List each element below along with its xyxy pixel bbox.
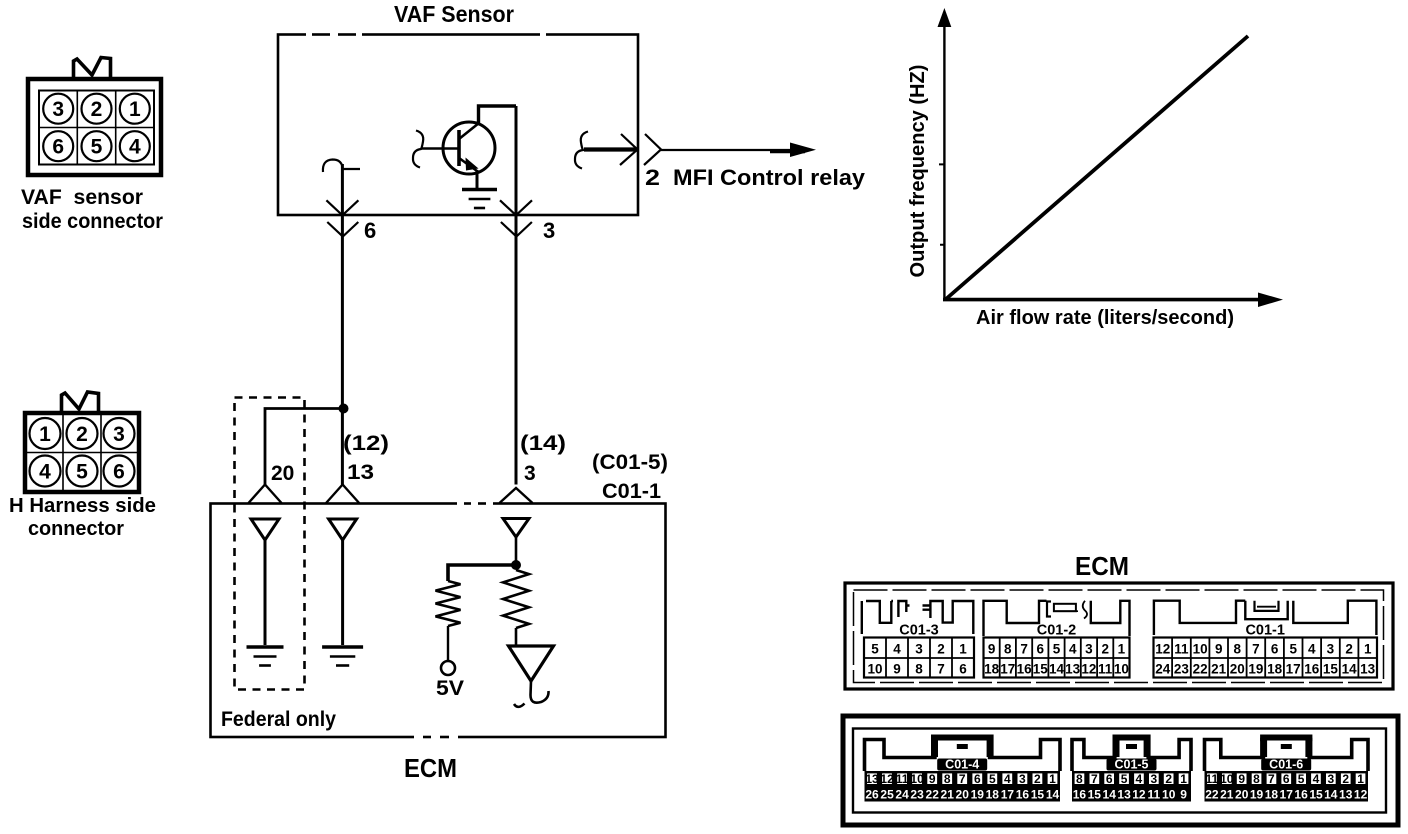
svg-text:4: 4 <box>1004 772 1011 786</box>
pin 9 (C01-4) <box>929 772 936 786</box>
svg-text:2: 2 <box>1101 642 1109 657</box>
pin 6 (C01-4) <box>974 772 981 786</box>
pin 1 (H harness side connector) <box>30 418 61 449</box>
svg-text:3: 3 <box>1019 772 1026 786</box>
pin 8 (C01-2) <box>1004 642 1012 657</box>
ground (transistor emitter) <box>462 170 497 208</box>
svg-text:4: 4 <box>893 642 901 657</box>
junction node (5V divider) <box>511 560 521 570</box>
svg-text:12: 12 <box>1354 788 1368 802</box>
ground (pin 13) <box>322 647 363 666</box>
svg-text:VAF sensor: VAF sensor <box>21 186 143 209</box>
svg-text:10: 10 <box>867 662 882 677</box>
pin 15 (C01-1) <box>1323 662 1339 677</box>
wire: branch to pin 20 <box>265 409 344 485</box>
svg-text:3: 3 <box>1150 772 1157 786</box>
svg-text:9: 9 <box>1215 642 1223 657</box>
dashed box: Federal only <box>235 398 305 690</box>
pin 10 (C01-6) <box>1220 772 1234 786</box>
pin 17 (C01-6) <box>1280 788 1294 802</box>
connector C01-2 pin grid <box>984 638 1130 678</box>
svg-text:26: 26 <box>865 788 879 802</box>
svg-text:5V: 5V <box>436 677 464 700</box>
svg-text:13: 13 <box>865 772 879 786</box>
pin 23 (C01-4) <box>910 788 924 802</box>
svg-text:16: 16 <box>1304 662 1320 677</box>
pin 15 (C01-6) <box>1309 788 1323 802</box>
svg-text:2: 2 <box>1034 772 1041 786</box>
pin 6 (C01-1) <box>1271 642 1279 657</box>
svg-text:4: 4 <box>1308 642 1316 657</box>
svg-text:19: 19 <box>1248 662 1263 677</box>
pin 7 (C01-6) <box>1268 772 1275 786</box>
connector curl: pin 6 wire top <box>323 160 360 173</box>
svg-text:17: 17 <box>1280 788 1294 802</box>
svg-text:13: 13 <box>347 461 374 484</box>
svg-text:8: 8 <box>944 772 951 786</box>
ECM connector housing (harness view, bottom) <box>843 716 1398 825</box>
connector C01-4 pin grid (row 2) <box>865 786 1061 802</box>
svg-text:6: 6 <box>1106 772 1113 786</box>
svg-text:14: 14 <box>1046 788 1060 802</box>
svg-text:12: 12 <box>1081 662 1096 677</box>
box: ECM <box>211 504 666 738</box>
connector C01-6 pin grid (row 1) <box>1205 771 1369 786</box>
svg-text:5: 5 <box>871 642 879 657</box>
svg-text:19: 19 <box>971 788 985 802</box>
svg-text:5: 5 <box>1121 772 1128 786</box>
connector C01-6 pin grid (row 2) <box>1205 786 1369 802</box>
pin 4 (VAF sensor side connector) <box>120 131 150 161</box>
svg-text:11: 11 <box>1098 662 1113 677</box>
pin 1 (C01-6) <box>1357 772 1364 786</box>
pin 13 (C01-2) <box>1065 662 1081 677</box>
svg-text:9: 9 <box>929 772 936 786</box>
svg-text:14: 14 <box>1103 788 1117 802</box>
connector curl: relay output <box>575 132 588 169</box>
label: MFI Control relay <box>673 165 866 190</box>
box: VAF Sensor <box>278 35 638 216</box>
svg-text:15: 15 <box>1323 662 1339 677</box>
wire: pin 6 vertical <box>341 164 344 485</box>
label: pin 2 <box>645 165 660 190</box>
svg-text:15: 15 <box>1031 788 1045 802</box>
pin 5 (C01-6) <box>1298 772 1305 786</box>
pin 7 (C01-5) <box>1091 772 1098 786</box>
svg-text:4: 4 <box>1313 772 1320 786</box>
pin 9 (C01-6) <box>1238 772 1245 786</box>
pin 16 (C01-4) <box>1016 788 1030 802</box>
label: C01-1 <box>602 480 661 503</box>
label: pin 20 <box>271 462 294 485</box>
svg-text:3: 3 <box>1327 642 1335 657</box>
svg-text:(C01-5): (C01-5) <box>592 451 668 474</box>
svg-text:Output frequency (HZ): Output frequency (HZ) <box>907 65 929 278</box>
pin fork 3 (ECM) <box>500 488 533 503</box>
svg-text:4: 4 <box>1136 772 1143 786</box>
pin 2 (H harness side connector) <box>67 418 98 449</box>
svg-text:22: 22 <box>1205 788 1219 802</box>
pin 5 (C01-4) <box>989 772 996 786</box>
svg-text:connector: connector <box>28 518 124 540</box>
svg-text:3: 3 <box>1327 772 1334 786</box>
pin 4 (H harness side connector) <box>30 456 61 487</box>
svg-text:1: 1 <box>1364 642 1372 657</box>
pin 18 (C01-2) <box>984 662 1000 677</box>
svg-text:15: 15 <box>1309 788 1323 802</box>
svg-text:20: 20 <box>1235 788 1249 802</box>
pin 22 (C01-6) <box>1205 788 1219 802</box>
pin 2 (C01-3) <box>937 642 945 657</box>
svg-text:8: 8 <box>1234 642 1242 657</box>
svg-text:10: 10 <box>910 772 924 786</box>
svg-text:(14): (14) <box>520 432 566 455</box>
svg-text:5: 5 <box>1053 642 1061 657</box>
pin 9 (C01-5) <box>1180 788 1187 802</box>
svg-text:2: 2 <box>645 165 660 190</box>
svg-text:19: 19 <box>1250 788 1264 802</box>
svg-text:7: 7 <box>937 662 945 677</box>
svg-text:C01-1: C01-1 <box>602 480 661 503</box>
label: pin 3 (ECM) <box>524 462 536 485</box>
svg-text:C01-2: C01-2 <box>1037 623 1077 639</box>
pin 24 (C01-1) <box>1155 662 1171 677</box>
connector: H harness side connector <box>25 392 139 492</box>
svg-text:1: 1 <box>1118 642 1126 657</box>
svg-text:4: 4 <box>1069 642 1077 657</box>
svg-text:1: 1 <box>39 423 51 446</box>
svg-text:10: 10 <box>1114 662 1129 677</box>
label: ECM (connector view) <box>1075 551 1129 581</box>
svg-text:22: 22 <box>926 788 940 802</box>
svg-text:11: 11 <box>1147 788 1160 802</box>
graph x-axis <box>943 293 1283 308</box>
label: pin 3 <box>543 218 555 243</box>
connector C01-1 pin grid <box>1154 638 1378 678</box>
pin 22 (C01-4) <box>926 788 940 802</box>
wire: output to box edge (thick) <box>584 147 638 151</box>
wire: pin 3 to node <box>515 537 518 565</box>
svg-text:2: 2 <box>76 423 88 446</box>
pin 18 (C01-1) <box>1267 662 1283 677</box>
connector curl: comparator output <box>514 681 549 707</box>
svg-text:10: 10 <box>1193 642 1208 657</box>
pin 21 (C01-4) <box>941 788 955 802</box>
pin 1 (VAF sensor side connector) <box>120 94 150 124</box>
pin 8 (C01-4) <box>944 772 951 786</box>
label: (C01-5) <box>592 451 668 474</box>
label: Output frequency (HZ) <box>907 65 929 278</box>
svg-text:9: 9 <box>988 642 996 657</box>
svg-text:7: 7 <box>1020 642 1028 657</box>
svg-text:7: 7 <box>1252 642 1260 657</box>
wire: arrow to MFI control relay <box>661 143 816 158</box>
svg-text:6: 6 <box>974 772 981 786</box>
svg-text:5: 5 <box>989 772 996 786</box>
label: C01-1 <box>1245 623 1285 639</box>
pin 4 (C01-5) <box>1136 772 1143 786</box>
svg-text:21: 21 <box>1211 662 1227 677</box>
pin 26 (C01-4) <box>865 788 879 802</box>
pin 1 (C01-4) <box>1049 772 1056 786</box>
pin 14 (C01-4) <box>1046 788 1060 802</box>
svg-text:14: 14 <box>1049 662 1065 677</box>
label: Federal only <box>221 708 336 731</box>
pin 6 (C01-6) <box>1283 772 1290 786</box>
svg-text:11: 11 <box>1206 772 1219 786</box>
pin 18 (C01-6) <box>1265 788 1279 802</box>
svg-text:8: 8 <box>1253 772 1260 786</box>
svg-text:C01-4: C01-4 <box>945 758 979 772</box>
svg-text:6: 6 <box>1037 642 1045 657</box>
svg-text:11: 11 <box>896 772 909 786</box>
wire: node to pull-up resistor <box>448 565 516 581</box>
svg-text:1: 1 <box>1049 772 1056 786</box>
svg-text:(12): (12) <box>343 432 389 455</box>
pin 14 (C01-1) <box>1342 662 1358 677</box>
connector: VAF sensor side connector <box>28 58 161 176</box>
connector C01-5 pin grid (row 2) <box>1072 786 1191 802</box>
svg-text:6: 6 <box>959 662 967 677</box>
svg-text:ECM: ECM <box>404 753 457 783</box>
svg-text:2: 2 <box>937 642 945 657</box>
label: VAF sensor side connector <box>21 186 163 233</box>
svg-text:ECM: ECM <box>1075 551 1129 581</box>
pin 10 (C01-1) <box>1193 642 1208 657</box>
pin 6 (C01-2) <box>1037 642 1045 657</box>
pin 8 (C01-1) <box>1234 642 1242 657</box>
pin 19 (C01-4) <box>971 788 985 802</box>
pin 4 (C01-1) <box>1308 642 1316 657</box>
svg-text:6: 6 <box>113 461 125 484</box>
transistor Q1 (NPN in VAF sensor) <box>421 122 495 174</box>
svg-text:6: 6 <box>1283 772 1290 786</box>
pin 11 (C01-1) <box>1174 642 1189 657</box>
5V supply terminal <box>441 661 455 675</box>
pin 3 (C01-4) <box>1019 772 1026 786</box>
graph diagonal line <box>946 36 1248 299</box>
pin 12 (C01-5) <box>1132 788 1146 802</box>
svg-text:22: 22 <box>1193 662 1208 677</box>
pin 8 (C01-5) <box>1076 772 1083 786</box>
pin 16 (C01-5) <box>1073 788 1087 802</box>
pin 6 (C01-3) <box>959 662 967 677</box>
pin 4 (C01-3) <box>893 642 901 657</box>
svg-text:13: 13 <box>1339 788 1353 802</box>
svg-text:1: 1 <box>1180 772 1187 786</box>
label: pin 6 <box>364 218 376 243</box>
svg-text:14: 14 <box>1342 662 1358 677</box>
pin 9 (C01-1) <box>1215 642 1223 657</box>
svg-text:VAF Sensor: VAF Sensor <box>394 1 514 27</box>
pin 10 (C01-2) <box>1114 662 1129 677</box>
pin 5 (C01-3) <box>871 642 879 657</box>
connector C01-4 pin grid (row 1) <box>865 771 1061 786</box>
wire: resistor to 5V <box>447 626 449 661</box>
svg-text:24: 24 <box>1155 662 1171 677</box>
pin 14 (C01-5) <box>1103 788 1117 802</box>
svg-text:Federal only: Federal only <box>221 708 336 731</box>
label: C01-6 (smudged) <box>1261 758 1311 772</box>
svg-text:13: 13 <box>1360 662 1376 677</box>
label: (14) <box>520 432 566 455</box>
pin 10 (C01-3) <box>867 662 882 677</box>
pin 3 (C01-1) <box>1327 642 1335 657</box>
pin 21 (C01-1) <box>1211 662 1227 677</box>
wire: pin 13 to ground <box>341 540 344 645</box>
connector C01-5 housing profile <box>1072 735 1191 772</box>
svg-text:C01-5: C01-5 <box>1114 758 1148 772</box>
pin 12 (C01-2) <box>1081 662 1096 677</box>
svg-text:2: 2 <box>91 98 103 121</box>
input triangle (pin 3) <box>503 519 529 538</box>
pin 6 connector chevrons <box>326 200 358 236</box>
svg-text:3: 3 <box>543 218 555 243</box>
svg-text:12: 12 <box>1132 788 1146 802</box>
label: C01-5 (smudged) <box>1107 758 1157 772</box>
pin 5 (C01-1) <box>1289 642 1297 657</box>
svg-text:1: 1 <box>959 642 967 657</box>
svg-text:3: 3 <box>113 423 125 446</box>
junction node (pin 13 branch) <box>339 404 349 414</box>
scan gaps on ECM box edges <box>306 32 546 740</box>
svg-text:2: 2 <box>1165 772 1172 786</box>
svg-text:1: 1 <box>1357 772 1364 786</box>
svg-text:Air flow rate (liters/second): Air flow rate (liters/second) <box>976 307 1234 329</box>
pin 17 (C01-4) <box>1001 788 1015 802</box>
pin 1 (C01-3) <box>959 642 967 657</box>
pin 19 (C01-1) <box>1248 662 1263 677</box>
pin 13 (C01-5) <box>1117 788 1131 802</box>
svg-text:9: 9 <box>1180 788 1187 802</box>
pin 15 (C01-4) <box>1031 788 1045 802</box>
svg-text:10: 10 <box>1220 772 1234 786</box>
svg-text:20: 20 <box>956 788 970 802</box>
wire: resistor to comparator <box>515 628 518 646</box>
pin 20 (C01-4) <box>956 788 970 802</box>
svg-text:23: 23 <box>1174 662 1190 677</box>
svg-text:7: 7 <box>1268 772 1275 786</box>
svg-text:3: 3 <box>52 98 64 121</box>
graph y-axis <box>938 8 952 301</box>
label: 5V <box>436 677 464 700</box>
label: C01-4 (smudged) <box>937 758 987 772</box>
pin 11 (C01-6) <box>1206 772 1219 786</box>
pin 4 (C01-4) <box>1004 772 1011 786</box>
svg-text:1: 1 <box>129 98 141 121</box>
label: H Harness side connector <box>9 495 156 540</box>
svg-text:25: 25 <box>880 788 894 802</box>
pin 1 (C01-1) <box>1364 642 1372 657</box>
pin 4 (C01-6) <box>1313 772 1320 786</box>
pin 5 (H harness side connector) <box>67 456 98 487</box>
svg-text:5: 5 <box>76 461 88 484</box>
pin 7 (C01-2) <box>1020 642 1028 657</box>
wire: collector to pin 3 line <box>479 106 517 124</box>
connector C01-5 pin grid (row 1) <box>1072 771 1191 786</box>
svg-text:13: 13 <box>1065 662 1081 677</box>
connector C01-2 housing profile <box>984 601 1130 636</box>
svg-text:18: 18 <box>1267 662 1283 677</box>
pin 8 (C01-3) <box>915 662 923 677</box>
pin 7 (C01-1) <box>1252 642 1260 657</box>
pin 9 (C01-2) <box>988 642 996 657</box>
svg-text:2: 2 <box>1342 772 1349 786</box>
label: ECM <box>404 753 457 783</box>
pin 5 (C01-2) <box>1053 642 1061 657</box>
output chevrons at box edge <box>620 134 661 165</box>
resistor R1 (pull-up to 5V) <box>436 581 461 626</box>
pin 11 (C01-5) <box>1147 788 1160 802</box>
pin 12 (C01-1) <box>1155 642 1170 657</box>
svg-text:9: 9 <box>893 662 901 677</box>
svg-text:24: 24 <box>895 788 909 802</box>
connector C01-3 pin grid <box>864 638 974 678</box>
wire: pin 20 to ground <box>264 540 267 645</box>
connector C01-6 housing profile <box>1205 735 1369 772</box>
svg-text:8: 8 <box>1004 642 1012 657</box>
pin 13 (C01-1) <box>1360 662 1376 677</box>
pin 6 (C01-5) <box>1106 772 1113 786</box>
svg-text:15: 15 <box>1088 788 1102 802</box>
svg-text:side connector: side connector <box>22 210 163 233</box>
pin 4 (C01-2) <box>1069 642 1077 657</box>
svg-text:21: 21 <box>941 788 955 802</box>
svg-text:C01-1: C01-1 <box>1245 623 1285 639</box>
pin 25 (C01-4) <box>880 788 894 802</box>
label: Air flow rate (liters/second) <box>976 307 1234 329</box>
svg-text:9: 9 <box>1238 772 1245 786</box>
label: (12) <box>343 432 389 455</box>
connector C01-1 housing profile <box>1154 601 1377 635</box>
svg-text:16: 16 <box>1073 788 1087 802</box>
pin 2 (C01-6) <box>1342 772 1349 786</box>
pin 2 (C01-1) <box>1345 642 1353 657</box>
svg-text:8: 8 <box>915 662 923 677</box>
pin 7 (C01-3) <box>937 662 945 677</box>
label: C01-3 <box>899 623 939 639</box>
pin 13 (C01-6) <box>1339 788 1353 802</box>
pin 14 (C01-6) <box>1324 788 1338 802</box>
pin 2 (C01-5) <box>1165 772 1172 786</box>
svg-text:4: 4 <box>39 461 51 484</box>
pin 24 (C01-4) <box>895 788 909 802</box>
svg-text:12: 12 <box>880 772 894 786</box>
pin 3 (VAF sensor side connector) <box>43 94 73 124</box>
svg-text:6: 6 <box>1271 642 1279 657</box>
svg-text:7: 7 <box>1091 772 1098 786</box>
svg-text:23: 23 <box>910 788 924 802</box>
pin 9 (C01-3) <box>893 662 901 677</box>
pin 20 (C01-6) <box>1235 788 1249 802</box>
pin 3 (C01-2) <box>1085 642 1093 657</box>
pin 3 (C01-5) <box>1150 772 1157 786</box>
pin 3 connector chevrons <box>500 200 532 236</box>
resistor R2 (to comparator) <box>503 570 529 628</box>
svg-text:C01-3: C01-3 <box>899 623 939 639</box>
pin fork 20 (ECM) <box>249 485 282 504</box>
svg-text:21: 21 <box>1220 788 1234 802</box>
svg-text:18: 18 <box>1265 788 1279 802</box>
pin 12 (C01-6) <box>1354 788 1368 802</box>
pin 16 (C01-1) <box>1304 662 1320 677</box>
connector C01-4 housing profile <box>865 735 1061 772</box>
label: C01-2 <box>1037 623 1077 639</box>
svg-text:H Harness side: H Harness side <box>9 495 156 517</box>
pin 2 (C01-4) <box>1034 772 1041 786</box>
input triangle (pin 13) <box>329 519 357 540</box>
svg-text:6: 6 <box>364 218 376 243</box>
